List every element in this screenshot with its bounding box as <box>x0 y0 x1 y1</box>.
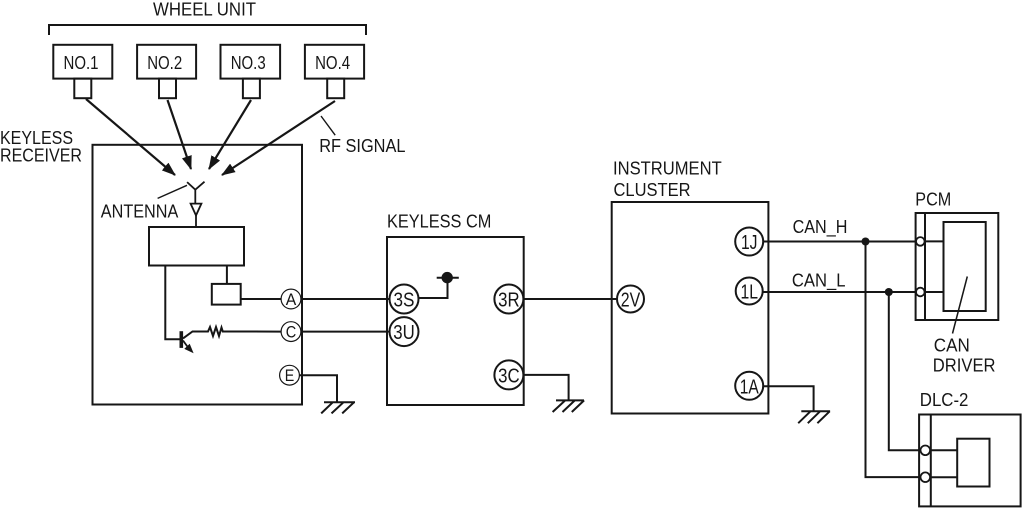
svg-text:KEYLESS CM: KEYLESS CM <box>387 212 491 232</box>
svg-text:DRIVER: DRIVER <box>933 355 996 375</box>
svg-text:INSTRUMENT: INSTRUMENT <box>613 158 722 178</box>
svg-text:CAN: CAN <box>934 335 970 355</box>
svg-text:ANTENNA: ANTENNA <box>101 202 179 222</box>
svg-text:1A: 1A <box>740 376 760 398</box>
svg-text:E: E <box>285 366 295 385</box>
svg-text:CAN_H: CAN_H <box>793 217 848 238</box>
svg-text:3C: 3C <box>498 365 520 387</box>
svg-text:PCM: PCM <box>915 189 951 209</box>
svg-text:1L: 1L <box>740 282 758 304</box>
svg-text:C: C <box>286 323 297 342</box>
svg-text:3S: 3S <box>394 290 415 312</box>
svg-text:NO.2: NO.2 <box>147 53 182 73</box>
svg-text:CAN_L: CAN_L <box>792 270 846 291</box>
svg-text:NO.3: NO.3 <box>231 53 266 73</box>
svg-text:A: A <box>286 290 297 309</box>
svg-text:RECEIVER: RECEIVER <box>0 146 82 166</box>
svg-text:CLUSTER: CLUSTER <box>614 180 691 200</box>
svg-text:1J: 1J <box>741 232 758 254</box>
svg-text:2V: 2V <box>621 290 641 312</box>
svg-text:3R: 3R <box>498 290 520 312</box>
svg-text:WHEEL UNIT: WHEEL UNIT <box>153 0 256 20</box>
svg-text:3U: 3U <box>393 322 415 344</box>
svg-text:DLC-2: DLC-2 <box>920 390 969 410</box>
svg-text:RF SIGNAL: RF SIGNAL <box>319 136 405 156</box>
svg-text:NO.1: NO.1 <box>64 53 99 73</box>
svg-text:NO.4: NO.4 <box>315 53 350 73</box>
